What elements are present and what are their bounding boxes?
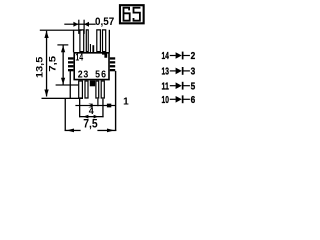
dimension 0.57 leader line [64,24,95,25]
13,5 dimension line [46,31,47,97]
13,5 bottom arrow [44,90,48,97]
svg-text:7,5: 7,5 [47,56,57,72]
dimension line 7,5 bottom right segment [97,130,116,131]
svg-text:4: 4 [89,106,94,116]
digit 5 of 65 [133,7,141,22]
bottom bent lead right [115,71,116,131]
dimension line 7,5 bottom left segment [65,130,81,131]
7,5 left bottom extension line [56,84,79,85]
top lead 4 outlined [102,29,106,52]
top lead 1 outlined [79,29,84,52]
top lead 3 outlined [96,29,101,52]
svg-text:13: 13 [162,66,169,78]
diode row 3: 11 to 5 [162,80,196,92]
svg-text:3: 3 [83,69,88,80]
13,5 bottom extension line merged with lead jogs [42,98,84,99]
right side stub pins [110,57,115,59]
drawing number box 65 outer frame [119,4,145,24]
diode row 1: 14 to 2 [162,50,196,62]
7,5 left top extension line [57,44,68,45]
dim 7,5 arrow right [107,129,115,133]
tick under lead C [97,99,98,107]
13,5 top extension line [40,30,82,31]
pin 1 index mark top right [102,53,107,58]
svg-text:14: 14 [75,53,83,64]
svg-text:11: 11 [162,80,170,92]
dim 1 arrow blob right [106,104,112,108]
svg-text:6: 6 [191,94,196,106]
bottom lead B outlined [84,80,88,98]
bottom bent lead left lower [65,98,66,131]
diode row 2: 13 to 3 [162,66,196,78]
dimension 0.57 arrow left [84,22,89,27]
top lead along body right edge [109,30,110,53]
bottom lead C outlined [95,80,99,98]
svg-text:14: 14 [162,50,169,62]
svg-text:6: 6 [101,69,106,80]
bottom short leads block [90,80,95,86]
dim 4 arrow right [94,115,99,119]
svg-text:5: 5 [191,80,196,92]
digit 6 of 65 [123,7,131,22]
dimension 0.57 arrow right [73,22,78,27]
svg-text:3: 3 [191,66,196,78]
diode row 4: 10 to 6 [162,94,196,106]
4-dim left tick [79,98,80,117]
13,5 top arrow [44,31,48,38]
svg-text:2: 2 [78,69,83,80]
4-dim right tick under lead D [102,99,103,118]
7,5 left bottom arrow [61,78,65,85]
bottom lead D outlined [101,80,105,98]
bottom lead A outlined [78,80,83,98]
dimension line 4 [79,116,104,117]
svg-text:13,5: 13,5 [34,57,44,78]
svg-text:7,5: 7,5 [83,117,98,131]
dimension line 1 (label 1) [75,105,116,106]
dim 4 arrow left [83,115,88,119]
svg-text:2: 2 [191,50,196,62]
top lead 2 [86,29,89,52]
dimension 0.57 extension tick left [78,20,79,34]
7,5 left top arrow [61,46,65,53]
7,5 left dimension line [63,46,64,85]
dimension 0.57 extension tick right [84,20,85,34]
svg-text:1: 1 [123,96,129,107]
dim 1 arrow blob left [88,104,92,108]
left side stub pins [68,57,73,59]
top lead along body left edge [73,30,74,53]
dim 7,5 arrow left [67,129,75,133]
package body outline [73,52,109,80]
svg-text:0,57: 0,57 [95,16,114,28]
top short lead 2 [92,45,94,52]
svg-text:5: 5 [95,69,100,80]
top short lead 1 [90,44,91,53]
svg-text:10: 10 [162,94,169,106]
bottom bent lead left upper [70,71,71,98]
